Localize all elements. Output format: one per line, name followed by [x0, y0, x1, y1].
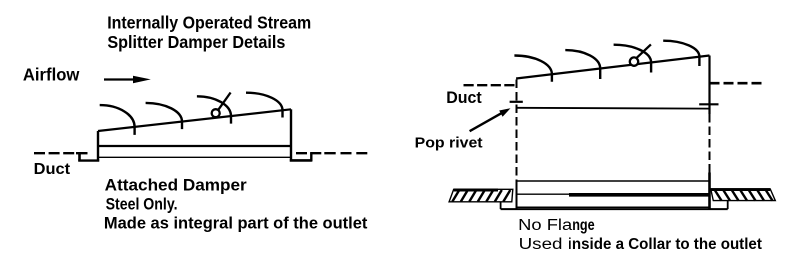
svg-text:Made as integral part of the o: Made as integral part of the outlet	[104, 215, 368, 233]
svg-text:Airflow: Airflow	[23, 65, 80, 85]
svg-text:Attached Damper: Attached Damper	[105, 177, 248, 195]
svg-text:Duct: Duct	[34, 161, 71, 178]
svg-text:Pop rivet: Pop rivet	[415, 135, 483, 151]
svg-text:Internally Operated Stream: Internally Operated Stream	[107, 13, 311, 33]
svg-text:Used inside a Collar to the ou: Used inside a Collar to the outlet	[519, 236, 762, 253]
svg-text:Splitter Damper Details: Splitter Damper Details	[107, 32, 285, 52]
svg-text:Duct: Duct	[446, 88, 482, 107]
svg-text:Steel Only.: Steel Only.	[106, 196, 178, 214]
svg-text:No Flange: No Flange	[518, 217, 595, 234]
